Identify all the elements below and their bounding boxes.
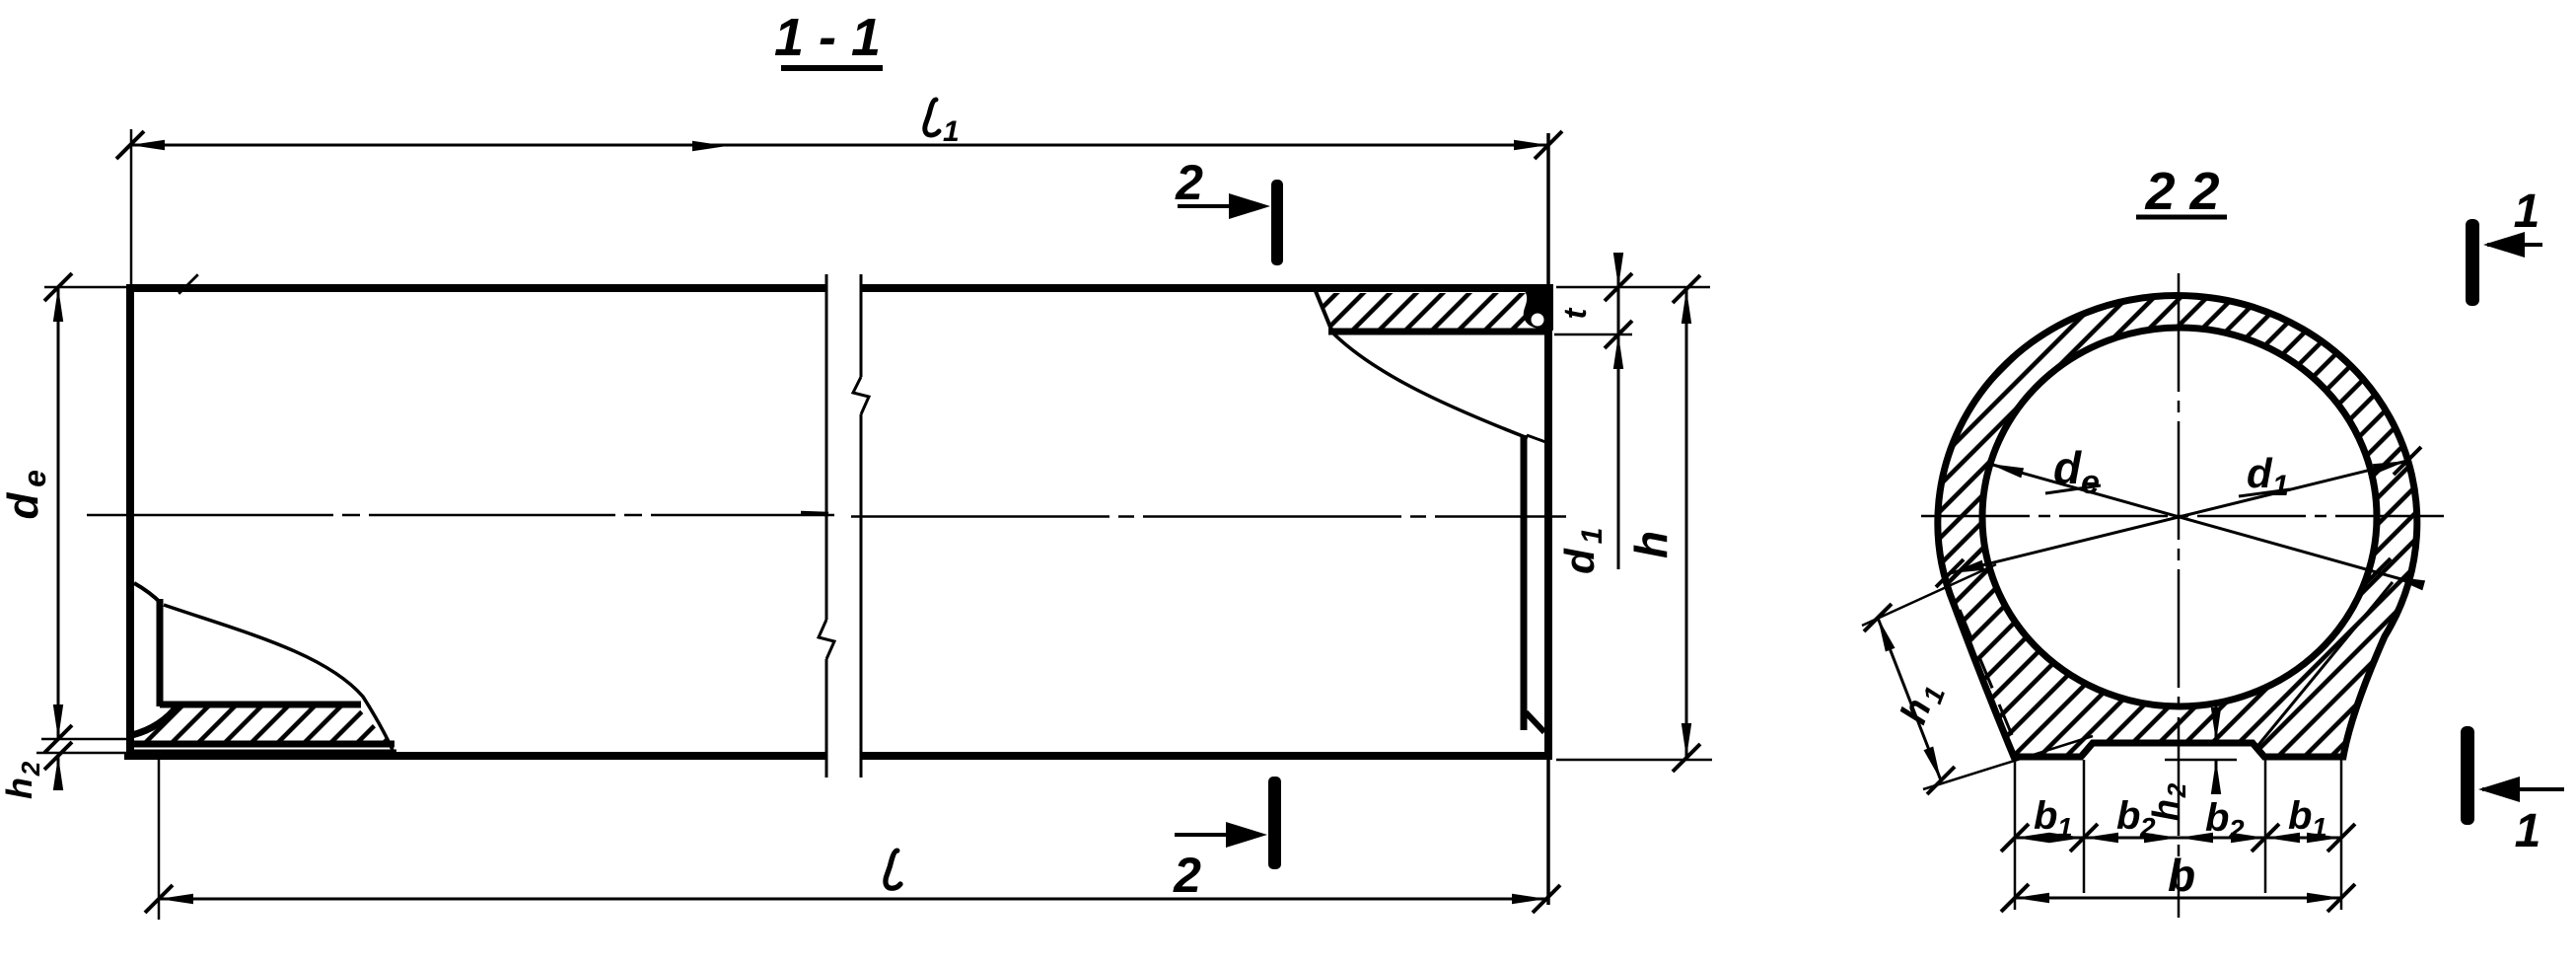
- vertical centerline: [2178, 273, 2181, 918]
- svg-text:2 2: 2 2: [2144, 162, 2219, 221]
- socket strip bottom line: [129, 741, 394, 748]
- svg-text:1: 1: [2515, 805, 2541, 857]
- svg-text:2: 2: [16, 761, 45, 777]
- svg-text:h: h: [1625, 531, 1677, 558]
- socket mouth curve: [134, 583, 162, 604]
- spigot shoulder curve: [1331, 332, 1528, 438]
- svg-text:2: 2: [2139, 812, 2156, 843]
- dimension l1 (top): [116, 100, 1562, 289]
- svg-text:2: 2: [2228, 814, 2245, 845]
- dimension h (far right): [1556, 275, 1712, 772]
- dimension d1 (right): [1556, 321, 1632, 574]
- socket inner edge (left bottom): [157, 599, 164, 706]
- svg-text:1: 1: [1576, 528, 1609, 545]
- pipe outer outline: [1938, 296, 2417, 757]
- svg-text:2: 2: [1173, 848, 1201, 903]
- svg-text:e: e: [2081, 464, 2100, 501]
- socket hatch strip: [131, 706, 389, 742]
- svg-text:2: 2: [2162, 782, 2191, 798]
- diameter line d1: [1988, 450, 2426, 590]
- svg-text:1: 1: [943, 115, 960, 148]
- right wall edge line: [2258, 582, 2393, 745]
- socket strip top line: [160, 702, 361, 708]
- svg-text:1: 1: [2514, 185, 2540, 238]
- section marker 1 (top right): [2466, 185, 2542, 306]
- dimension t (right): [1554, 253, 1710, 334]
- socket outer bottom thin line: [128, 750, 396, 753]
- section marker 2 (top): [1175, 155, 1283, 265]
- svg-text:2: 2: [1175, 155, 1203, 210]
- horizontal centerline: [1921, 515, 2444, 518]
- dimension line b1 b2 b2 b1: [2001, 794, 2355, 852]
- title 1-1: [774, 8, 883, 68]
- svg-text:t: t: [1557, 307, 1593, 319]
- dimension b: [2001, 850, 2355, 912]
- spigot end blob with groove: [1512, 284, 1553, 331]
- spigot inner bottom chamfer: [1526, 712, 1544, 732]
- svg-text:1 - 1: 1 - 1: [774, 8, 881, 67]
- section marker 2 (bottom): [1173, 777, 1281, 903]
- pipe top wall outline: [126, 284, 1527, 292]
- base dimension extension lines: [2015, 760, 2341, 910]
- pipe wall hatched area: [1938, 296, 2417, 757]
- svg-text:b: b: [2288, 794, 2312, 838]
- spigot strip left slant edge: [1316, 291, 1331, 330]
- title 2-2: [2136, 162, 2227, 221]
- svg-text:e: e: [17, 470, 52, 487]
- svg-text:b: b: [2116, 794, 2140, 838]
- socket cavity slope curve: [164, 605, 393, 750]
- spigot inner edge: [1521, 435, 1528, 730]
- spigot strip bottom line: [1328, 329, 1550, 335]
- dimension de (far left): [0, 273, 198, 753]
- diameter line de: [1936, 442, 2421, 587]
- svg-text:d: d: [2247, 450, 2273, 496]
- dimension l (bottom): [145, 760, 1560, 920]
- svg-text:1: 1: [2272, 470, 2289, 502]
- section marker 1 (bottom right): [2461, 726, 2564, 857]
- svg-text:b: b: [2205, 796, 2229, 840]
- spigot hatch strip (right top): [1318, 293, 1538, 329]
- dimension h1 (left slant): [1862, 564, 2093, 794]
- pipe left end face: [126, 284, 134, 760]
- left wall hidden edge: [1960, 610, 2012, 735]
- svg-text:h: h: [0, 778, 39, 799]
- dimension h2 (left view): [0, 742, 72, 799]
- svg-text:d: d: [1556, 548, 1603, 574]
- pipe inner bore: [1982, 328, 2377, 706]
- break lines with zigzag: [819, 274, 869, 778]
- dimension h2 (section): [2145, 706, 2237, 821]
- pipe right end face: [1546, 133, 1550, 905]
- svg-text:1: 1: [2057, 812, 2073, 843]
- svg-text:1: 1: [2312, 812, 2327, 843]
- axis centerline: [87, 514, 834, 517]
- svg-text:d: d: [0, 491, 47, 519]
- spigot inner top bevel: [1527, 435, 1548, 443]
- socket bottom fillet: [132, 704, 179, 735]
- svg-text:b: b: [2034, 794, 2057, 838]
- pipe bottom wall outline: [124, 752, 1552, 760]
- svg-text:b: b: [2168, 850, 2195, 901]
